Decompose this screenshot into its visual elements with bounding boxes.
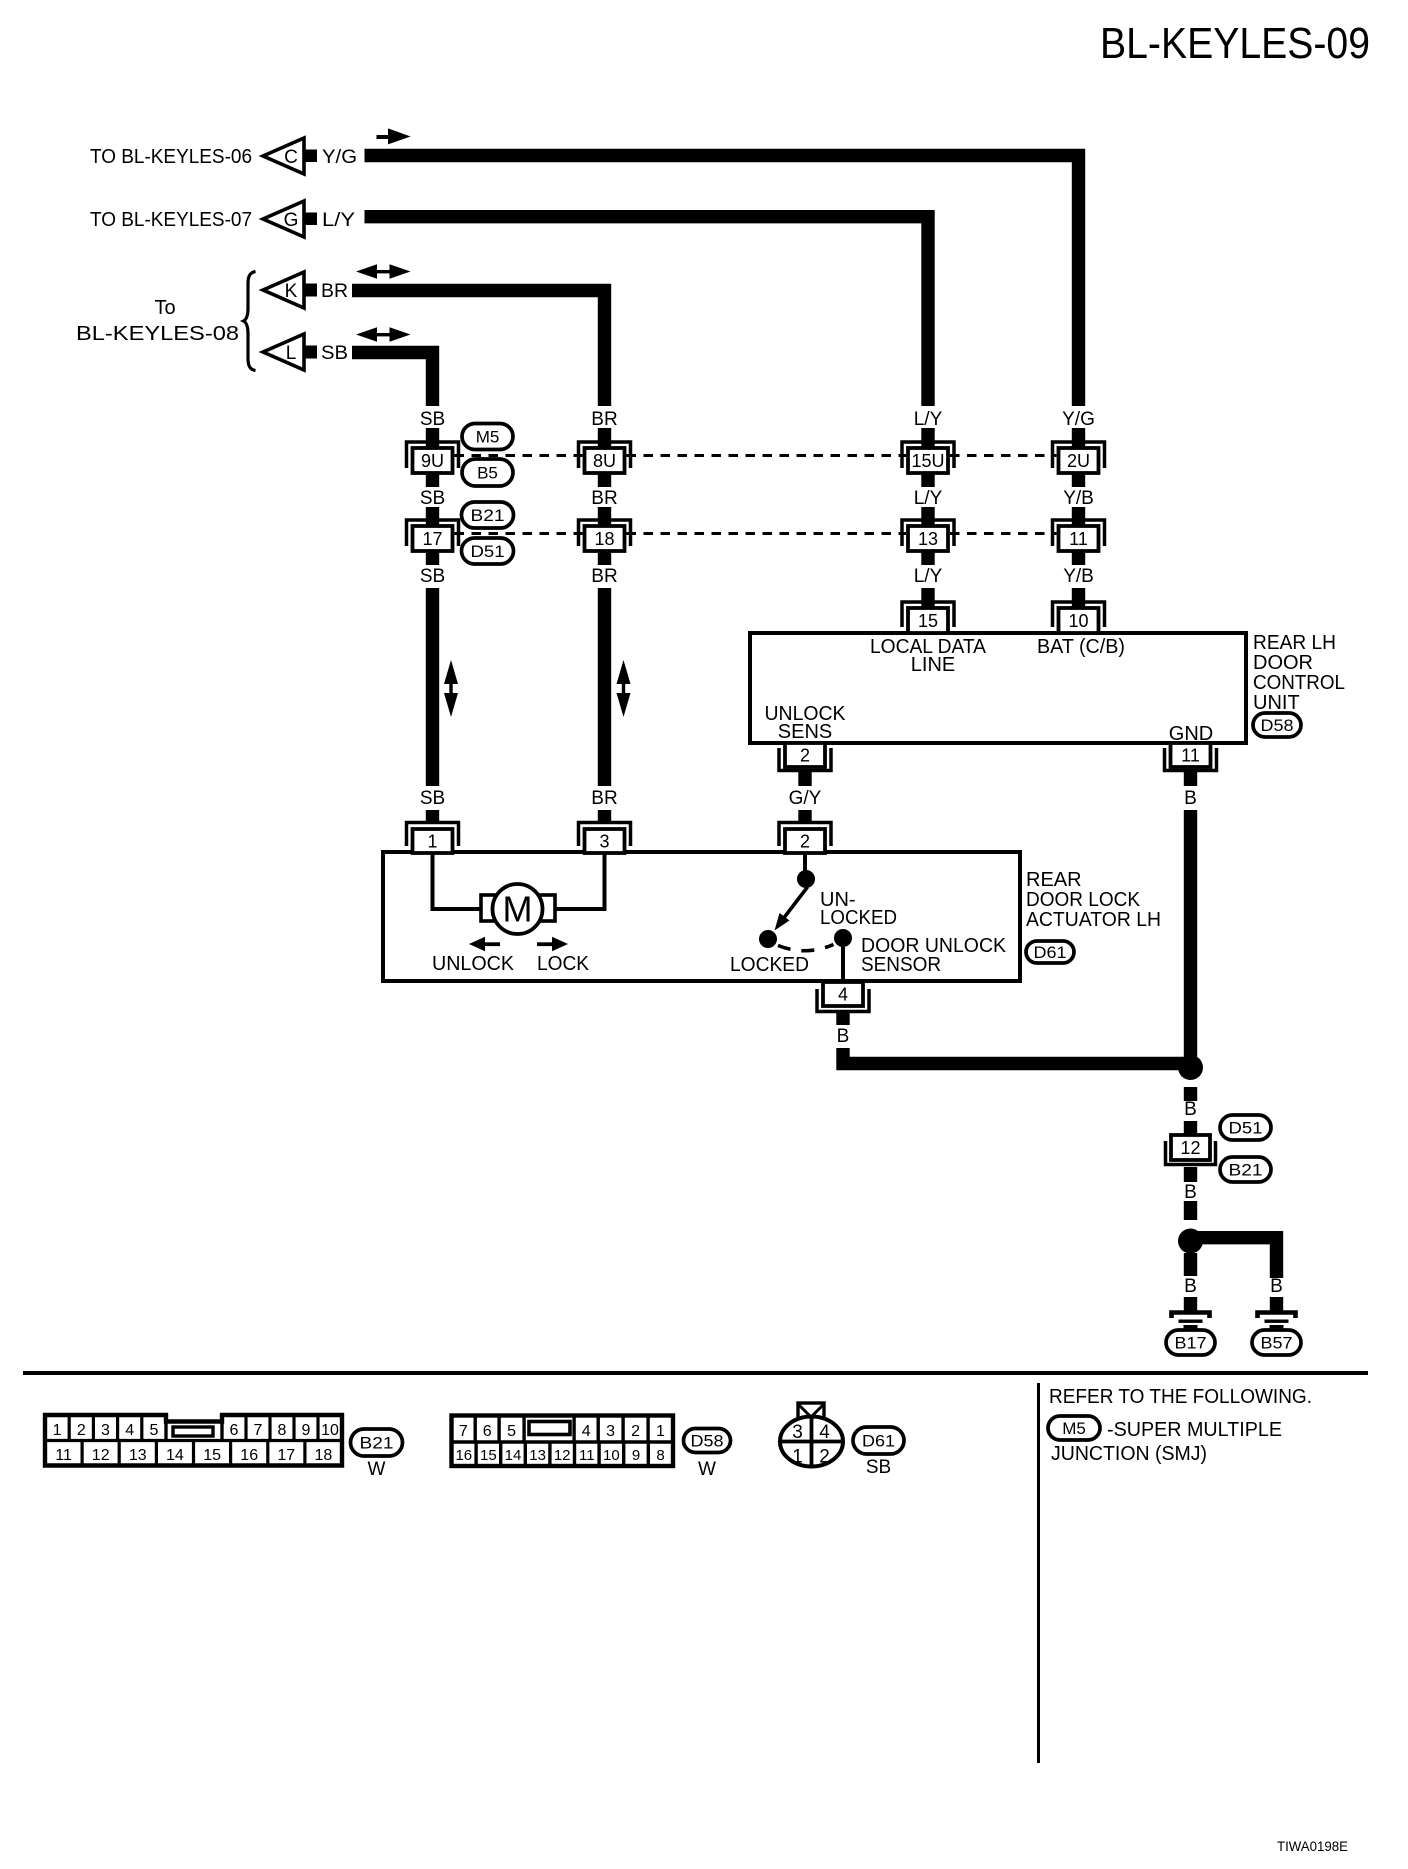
wire B stub to ground B17 — [1184, 1297, 1197, 1311]
wire B stub — [1184, 1167, 1197, 1182]
vertical double arrow on SB — [444, 660, 458, 717]
pin 10 — [1053, 602, 1105, 633]
svg-text:6: 6 — [483, 1423, 492, 1440]
wire B stub to ground B57 — [1270, 1297, 1283, 1311]
wire G/Y stub — [798, 810, 811, 823]
svg-text:LINE: LINE — [911, 654, 955, 676]
arrow lock (right) — [537, 937, 568, 951]
wire L/Y from G to 15U — [365, 217, 929, 406]
svg-text:SENS: SENS — [778, 721, 832, 743]
wire pin1 to motor — [433, 853, 484, 909]
svg-text:LOCK: LOCK — [537, 953, 590, 975]
svg-text:5: 5 — [149, 1422, 158, 1439]
oval D61 — [1026, 941, 1074, 963]
connector 17 (B21/D51) — [407, 520, 459, 551]
svg-text:DOOR LOCK: DOOR LOCK — [1026, 889, 1141, 911]
svg-text:ACTUATOR LH: ACTUATOR LH — [1026, 909, 1161, 931]
pin 3 actuator — [579, 823, 631, 854]
svg-text:D58: D58 — [1261, 716, 1294, 735]
arrow right — [377, 128, 411, 144]
connector triangle C — [263, 138, 317, 174]
svg-text:18: 18 — [315, 1447, 333, 1464]
wire B stub — [1184, 1087, 1197, 1101]
connector 13 (B21/D51) — [902, 520, 954, 551]
contact LOCKED — [759, 930, 777, 948]
wire SB from L to 9U — [352, 353, 433, 407]
svg-text:B: B — [1184, 1182, 1197, 1203]
connector triangle G — [263, 201, 317, 237]
svg-text:2U: 2U — [1067, 451, 1090, 471]
connector triangle K — [263, 272, 317, 308]
motor M — [481, 884, 555, 934]
svg-text:B17: B17 — [1175, 1334, 1207, 1353]
pin 15 — [902, 602, 954, 633]
svg-text:3: 3 — [101, 1422, 110, 1439]
svg-text:LOCKED: LOCKED — [730, 954, 809, 976]
oval B21 with color W — [351, 1429, 403, 1456]
svg-text:DOOR: DOOR — [1253, 652, 1313, 674]
junction node — [1178, 1055, 1203, 1080]
connector face D58 (16 pin) — [452, 1416, 674, 1467]
oval D58 with color W — [684, 1429, 731, 1453]
svg-text:11: 11 — [1181, 746, 1200, 766]
double arrow — [356, 327, 411, 341]
connector 8U (SMJ) — [579, 442, 631, 473]
svg-text:G/Y: G/Y — [789, 788, 822, 809]
svg-text:B21: B21 — [360, 1434, 394, 1453]
svg-text:4: 4 — [838, 985, 848, 1005]
svg-text:1: 1 — [656, 1423, 665, 1440]
svg-text:11: 11 — [1069, 529, 1088, 549]
svg-text:REFER TO THE FOLLOWING.: REFER TO THE FOLLOWING. — [1049, 1386, 1312, 1408]
svg-text:BAT (C/B): BAT (C/B) — [1037, 636, 1125, 658]
svg-text:Y/G: Y/G — [1062, 409, 1095, 430]
svg-text:LOCKED: LOCKED — [820, 907, 897, 929]
svg-text:SB: SB — [321, 343, 348, 364]
dashed travel arc — [778, 945, 834, 951]
svg-text:3: 3 — [792, 1422, 803, 1443]
wire BR long — [598, 588, 611, 786]
dashed link 9U-8U-15U-2U — [455, 454, 1057, 457]
svg-text:16: 16 — [240, 1447, 258, 1464]
svg-text:9U: 9U — [421, 451, 444, 471]
wire B stub below junction — [1184, 1253, 1197, 1276]
svg-text:REAR: REAR — [1026, 869, 1082, 891]
connector 9U (SMJ) — [407, 442, 459, 473]
svg-text:REAR LH: REAR LH — [1253, 632, 1336, 654]
brace — [244, 272, 256, 371]
joint ref ovals B21 D51 — [462, 502, 514, 528]
svg-text:15U: 15U — [912, 451, 945, 471]
svg-text:D58: D58 — [691, 1432, 724, 1451]
svg-text:1: 1 — [427, 832, 437, 852]
switch: wire from pin2 — [803, 853, 807, 871]
svg-text:BR: BR — [591, 566, 617, 587]
dashed link 17-18-13-11 — [455, 532, 1057, 535]
connector 11 (B21/D51) — [1053, 520, 1105, 551]
svg-text:Y/G: Y/G — [322, 147, 357, 168]
wire BR stub — [598, 810, 611, 823]
svg-text:SENSOR: SENSOR — [861, 954, 941, 976]
svg-text:CONTROL: CONTROL — [1253, 672, 1345, 694]
pin 2 actuator — [779, 823, 831, 854]
svg-text:14: 14 — [505, 1447, 522, 1464]
svg-text:M: M — [503, 889, 533, 930]
svg-text:2: 2 — [77, 1422, 86, 1439]
pin 11 — [1165, 743, 1217, 771]
connector 2U (SMJ) — [1053, 442, 1105, 473]
svg-text:B21: B21 — [1229, 1161, 1263, 1180]
svg-text:-SUPER MULTIPLE: -SUPER MULTIPLE — [1107, 1419, 1282, 1441]
unit REAR DOOR LOCK ACTUATOR LH D61 — [383, 852, 1020, 981]
svg-text:2: 2 — [819, 1447, 830, 1468]
wire B branch to B57 ground — [1197, 1238, 1277, 1278]
svg-text:C: C — [284, 147, 298, 168]
svg-text:10: 10 — [603, 1447, 620, 1464]
wire stubs into joint row — [426, 507, 439, 528]
svg-text:M5: M5 — [476, 428, 500, 447]
svg-text:1: 1 — [53, 1422, 62, 1439]
svg-text:M5: M5 — [1062, 1419, 1086, 1438]
svg-text:UNIT: UNIT — [1253, 692, 1300, 714]
svg-text:9: 9 — [302, 1422, 311, 1439]
svg-text:TO BL-KEYLES-06: TO BL-KEYLES-06 — [90, 146, 252, 168]
connector face D61 (4 pin round) — [780, 1403, 843, 1468]
unit REAR LH DOOR CONTROL UNIT D58 — [750, 633, 1246, 743]
svg-text:Y/B: Y/B — [1063, 488, 1094, 509]
svg-text:7: 7 — [459, 1423, 468, 1440]
svg-text:L/Y: L/Y — [914, 409, 943, 430]
wire stubs below SMJ row — [426, 473, 439, 487]
svg-text:D61: D61 — [862, 1432, 895, 1451]
contact UNLOCKED — [834, 929, 852, 947]
svg-text:17: 17 — [277, 1447, 295, 1464]
svg-text:L/Y: L/Y — [914, 566, 943, 587]
double arrow — [356, 264, 411, 278]
svg-text:10: 10 — [1068, 611, 1088, 631]
svg-text:D61: D61 — [1034, 943, 1067, 962]
svg-text:JUNCTION (SMJ): JUNCTION (SMJ) — [1051, 1443, 1207, 1465]
svg-text:L: L — [286, 343, 297, 364]
svg-text:15: 15 — [203, 1447, 221, 1464]
wire B stub — [1184, 1201, 1197, 1220]
svg-text:D51: D51 — [1229, 1119, 1263, 1138]
svg-text:2: 2 — [800, 746, 810, 766]
svg-text:13: 13 — [918, 529, 938, 549]
svg-text:8U: 8U — [593, 451, 616, 471]
svg-text:G: G — [284, 210, 299, 231]
svg-text:12: 12 — [554, 1447, 571, 1464]
svg-text:Y/B: Y/B — [1063, 566, 1094, 587]
svg-text:B: B — [1184, 1276, 1197, 1297]
svg-text:UNLOCK: UNLOCK — [432, 953, 515, 975]
wire stubs into SMJ row — [426, 428, 439, 449]
svg-text:To: To — [154, 297, 175, 319]
svg-text:9: 9 — [632, 1447, 640, 1464]
wire Y/B to pin 10 — [1072, 588, 1085, 610]
svg-text:5: 5 — [507, 1423, 516, 1440]
wire Y/G from C to 2U — [365, 156, 1079, 407]
wire stub pin 4 — [836, 1013, 849, 1025]
wire stubs below joint row — [426, 551, 439, 565]
svg-text:12: 12 — [1180, 1138, 1200, 1158]
ground B17 — [1172, 1313, 1210, 1329]
svg-text:18: 18 — [594, 529, 614, 549]
svg-text:B: B — [1270, 1276, 1283, 1297]
svg-text:L/Y: L/Y — [322, 210, 355, 231]
switch common node — [797, 870, 815, 888]
svg-text:2: 2 — [631, 1423, 640, 1440]
arrow unlock (left) — [469, 937, 500, 951]
svg-text:SB: SB — [420, 788, 445, 809]
divider vertical line — [1037, 1383, 1040, 1763]
svg-text:W: W — [698, 1459, 716, 1480]
SMJ ref ovals M5 B5 — [462, 424, 513, 450]
svg-text:BR: BR — [591, 488, 617, 509]
svg-text:TO BL-KEYLES-07: TO BL-KEYLES-07 — [90, 209, 252, 231]
svg-text:SB: SB — [420, 566, 445, 587]
svg-text:SB: SB — [866, 1457, 891, 1478]
svg-text:B57: B57 — [1261, 1334, 1293, 1353]
svg-text:BR: BR — [591, 788, 617, 809]
svg-text:14: 14 — [166, 1447, 184, 1464]
svg-text:L/Y: L/Y — [914, 488, 943, 509]
wire SB long — [426, 588, 439, 786]
svg-text:TIWA0198E: TIWA0198E — [1277, 1838, 1348, 1854]
connector triangle L — [263, 334, 317, 370]
switch arm with arrowhead — [783, 887, 808, 919]
wire stub pin 11 — [1184, 772, 1197, 786]
svg-text:11: 11 — [55, 1447, 72, 1464]
svg-text:W: W — [368, 1459, 386, 1480]
wire unlocked contact to pin 4 — [841, 947, 845, 981]
svg-text:BL-KEYLES-08: BL-KEYLES-08 — [76, 323, 239, 345]
svg-text:BR: BR — [591, 409, 617, 430]
separator line — [23, 1371, 1368, 1375]
svg-text:2: 2 — [800, 832, 810, 852]
oval D58 — [1253, 713, 1301, 737]
svg-text:SB: SB — [420, 409, 445, 430]
svg-text:12: 12 — [92, 1447, 110, 1464]
svg-text:4: 4 — [582, 1423, 591, 1440]
svg-text:13: 13 — [129, 1447, 147, 1464]
wire L/Y to pin 15 — [921, 588, 934, 610]
ovals D51 B21 — [1220, 1115, 1271, 1140]
svg-text:4: 4 — [125, 1422, 134, 1439]
svg-text:1: 1 — [792, 1447, 803, 1468]
connector 12 — [1166, 1135, 1216, 1165]
oval M5 — [1048, 1416, 1100, 1440]
svg-text:8: 8 — [656, 1447, 664, 1464]
pin 1 actuator — [407, 823, 459, 854]
svg-text:B5: B5 — [477, 464, 498, 483]
svg-text:BR: BR — [321, 281, 348, 302]
wire B down to junction — [1184, 810, 1197, 1060]
svg-text:15: 15 — [918, 611, 938, 631]
pin 4 actuator — [817, 982, 869, 1012]
oval D61 with color SB — [853, 1427, 904, 1454]
wire SB stub — [426, 810, 439, 823]
svg-text:10: 10 — [321, 1422, 339, 1439]
svg-text:7: 7 — [254, 1422, 263, 1439]
ground B57 — [1258, 1313, 1296, 1329]
svg-text:3: 3 — [599, 832, 609, 852]
svg-text:11: 11 — [579, 1447, 595, 1464]
svg-text:B21: B21 — [471, 506, 505, 525]
svg-text:3: 3 — [606, 1423, 615, 1440]
svg-text:6: 6 — [230, 1422, 239, 1439]
connector face B21 (18 pin) — [45, 1415, 342, 1466]
svg-text:D51: D51 — [471, 542, 505, 561]
wire BR from K to 8U — [352, 291, 605, 407]
vertical double arrow on BR — [617, 660, 631, 717]
wire pin3 to motor — [553, 853, 605, 909]
svg-text:B: B — [837, 1026, 850, 1047]
svg-text:SB: SB — [420, 488, 445, 509]
svg-text:17: 17 — [422, 529, 442, 549]
svg-text:BL-KEYLES-09: BL-KEYLES-09 — [1100, 19, 1370, 68]
wire stub pin 2 — [798, 772, 811, 786]
svg-text:8: 8 — [278, 1422, 287, 1439]
pin 2 — [779, 743, 831, 771]
junction node 2 — [1178, 1229, 1203, 1254]
connector 18 (B21/D51) — [579, 520, 631, 551]
svg-text:B: B — [1184, 788, 1197, 809]
wire B from pin4 to junction — [843, 1048, 1191, 1064]
wire B stub — [1184, 1121, 1197, 1135]
svg-text:15: 15 — [480, 1447, 497, 1464]
connector 15U (SMJ) — [902, 442, 954, 473]
svg-text:B: B — [1184, 1099, 1197, 1120]
svg-text:13: 13 — [529, 1447, 546, 1464]
svg-text:16: 16 — [455, 1447, 472, 1464]
svg-text:4: 4 — [819, 1422, 830, 1443]
svg-text:K: K — [285, 281, 298, 302]
